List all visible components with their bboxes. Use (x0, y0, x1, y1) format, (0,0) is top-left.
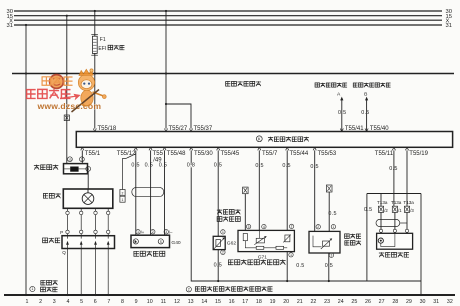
svg-text:/3: /3 (410, 208, 414, 213)
svg-text:/2: /2 (384, 208, 388, 213)
svg-text:T55/45: T55/45 (221, 151, 240, 157)
svg-text:/–: /– (169, 230, 173, 235)
svg-text:2: 2 (317, 225, 319, 229)
svg-text:1: 1 (332, 225, 334, 229)
svg-text:1: 1 (137, 230, 139, 234)
svg-text:18: 18 (256, 299, 262, 305)
svg-text:G40: G40 (171, 240, 181, 246)
svg-text:0.5: 0.5 (159, 163, 167, 169)
svg-text:11: 11 (161, 299, 167, 305)
svg-text:T13a: T13a (391, 200, 402, 205)
svg-text:31: 31 (433, 299, 439, 305)
svg-text:T55: T55 (153, 151, 164, 157)
svg-text:T55/41: T55/41 (345, 126, 364, 132)
svg-text:25: 25 (351, 299, 357, 305)
svg-text:EFI: EFI (98, 46, 106, 52)
svg-text:T55/1: T55/1 (85, 151, 101, 157)
svg-text:10: 10 (147, 299, 153, 305)
svg-text:28: 28 (392, 299, 398, 305)
svg-text:4: 4 (87, 167, 89, 171)
svg-text:0.5: 0.5 (328, 211, 336, 217)
svg-text:4: 4 (263, 225, 265, 229)
svg-text:26: 26 (365, 299, 371, 305)
svg-text:1: 1 (31, 287, 33, 291)
svg-text:T55/18: T55/18 (98, 126, 117, 132)
svg-text:29: 29 (406, 299, 412, 305)
svg-text:22: 22 (310, 299, 316, 305)
svg-text:1: 1 (26, 299, 29, 305)
svg-text:T55/11: T55/11 (375, 151, 394, 157)
svg-text:T55/37: T55/37 (194, 126, 213, 132)
svg-text:1: 1 (222, 230, 224, 234)
svg-text:0.8: 0.8 (187, 163, 195, 169)
svg-text:3: 3 (330, 253, 332, 257)
svg-text:T55/44: T55/44 (290, 151, 309, 157)
svg-text:3: 3 (248, 225, 250, 229)
svg-text:1: 1 (81, 157, 83, 161)
svg-text:21: 21 (297, 299, 303, 305)
svg-text:G62: G62 (227, 240, 237, 246)
svg-text:13: 13 (188, 299, 194, 305)
svg-text:S: S (160, 240, 162, 244)
svg-text:12: 12 (174, 299, 180, 305)
svg-text:T55/7: T55/7 (262, 151, 278, 157)
svg-text:3: 3 (53, 299, 56, 305)
svg-text:19: 19 (270, 299, 276, 305)
svg-text:2: 2 (188, 287, 190, 291)
svg-text:5: 5 (80, 299, 83, 305)
svg-text:T55/19: T55/19 (409, 151, 428, 157)
svg-text:15: 15 (68, 157, 72, 161)
svg-text:/1: /1 (398, 208, 402, 213)
svg-text:7: 7 (107, 299, 110, 305)
svg-text:0.5: 0.5 (296, 263, 304, 269)
svg-text:P: P (60, 230, 63, 235)
svg-text:Q: Q (62, 250, 66, 255)
svg-text:T55/12: T55/12 (117, 151, 136, 157)
svg-text:T13a: T13a (377, 200, 388, 205)
svg-text:2: 2 (291, 225, 293, 229)
svg-text:6: 6 (94, 299, 97, 305)
svg-text:2: 2 (222, 250, 224, 254)
svg-text:0.5: 0.5 (364, 207, 372, 213)
svg-text:16: 16 (229, 299, 235, 305)
svg-text:0.5: 0.5 (361, 110, 369, 116)
svg-text:32: 32 (447, 299, 453, 305)
svg-text:3: 3 (165, 230, 167, 234)
svg-text:T55/30: T55/30 (194, 151, 213, 157)
svg-text:T55/27: T55/27 (169, 126, 188, 132)
svg-text:31: 31 (446, 23, 452, 29)
svg-text:2: 2 (122, 192, 124, 196)
svg-text:T55/53: T55/53 (318, 151, 337, 157)
svg-text:0.5: 0.5 (145, 163, 153, 169)
svg-text:20: 20 (283, 299, 289, 305)
svg-text:24: 24 (338, 299, 344, 305)
svg-text:1: 1 (122, 198, 124, 202)
svg-text:B: B (364, 91, 367, 97)
svg-text:K: K (258, 136, 261, 141)
svg-text:27: 27 (379, 299, 385, 305)
svg-text:8: 8 (121, 299, 124, 305)
svg-text:0.5: 0.5 (282, 163, 290, 169)
svg-text:31: 31 (7, 23, 13, 29)
svg-text:1: 1 (290, 253, 292, 257)
svg-text:9: 9 (135, 299, 138, 305)
svg-text:30: 30 (420, 299, 426, 305)
svg-text:23: 23 (324, 299, 330, 305)
svg-text:17: 17 (242, 299, 248, 305)
svg-text:F1: F1 (100, 37, 106, 43)
svg-text:14: 14 (201, 299, 207, 305)
svg-text:/+: /+ (141, 230, 145, 235)
svg-text:T13a: T13a (403, 200, 414, 205)
svg-text:T55/40: T55/40 (370, 126, 389, 132)
svg-text:T55/48: T55/48 (167, 151, 186, 157)
svg-text:15: 15 (215, 299, 221, 305)
svg-text:2: 2 (39, 299, 42, 305)
svg-text:4: 4 (66, 299, 69, 305)
svg-text:2: 2 (152, 230, 154, 234)
